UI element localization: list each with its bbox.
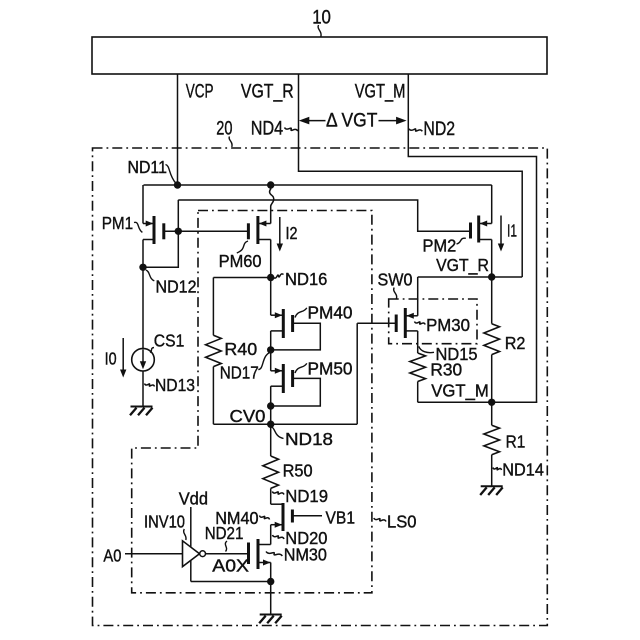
svg-text:ND14: ND14 [502, 460, 544, 480]
svg-text:R30: R30 [430, 360, 462, 380]
svg-text:CV0: CV0 [230, 406, 266, 426]
svg-text:ND17: ND17 [220, 363, 259, 383]
svg-text:LS0: LS0 [387, 512, 417, 532]
svg-text:ND13: ND13 [155, 375, 195, 395]
svg-text:A0: A0 [103, 546, 121, 566]
svg-text:ND21: ND21 [205, 523, 244, 543]
svg-text:Δ VGT: Δ VGT [326, 111, 378, 132]
svg-text:ND12: ND12 [156, 277, 197, 297]
svg-text:PM50: PM50 [308, 358, 353, 378]
svg-text:INV10: INV10 [144, 512, 185, 532]
svg-text:PM40: PM40 [308, 303, 353, 323]
svg-text:VB1: VB1 [326, 508, 356, 528]
svg-text:I2: I2 [286, 223, 298, 243]
svg-text:10: 10 [312, 7, 331, 28]
svg-text:ND4: ND4 [251, 118, 284, 139]
svg-text:SW0: SW0 [378, 270, 413, 290]
svg-text:VCP: VCP [186, 81, 214, 102]
svg-text:I0: I0 [105, 349, 117, 369]
svg-text:ND16: ND16 [285, 269, 328, 289]
svg-text:R50: R50 [283, 461, 313, 481]
svg-text:R1: R1 [506, 432, 526, 452]
svg-text:PM60: PM60 [219, 251, 262, 271]
svg-text:I1: I1 [507, 221, 517, 241]
svg-text:ND2: ND2 [423, 119, 455, 140]
svg-text:VGT_M: VGT_M [431, 381, 489, 402]
svg-text:PM30: PM30 [426, 315, 470, 335]
svg-text:A0X: A0X [212, 555, 249, 575]
svg-text:ND19: ND19 [285, 486, 328, 506]
svg-text:VGT_R: VGT_R [241, 81, 294, 102]
svg-text:ND18: ND18 [285, 429, 333, 449]
svg-text:R40: R40 [224, 339, 257, 359]
svg-text:CS1: CS1 [154, 331, 185, 351]
svg-text:VGT_M: VGT_M [355, 82, 406, 103]
svg-text:PM1: PM1 [102, 213, 134, 233]
svg-text:20: 20 [216, 118, 232, 139]
svg-text:PM2: PM2 [423, 235, 457, 255]
svg-text:R2: R2 [505, 333, 526, 353]
svg-text:ND11: ND11 [128, 157, 167, 177]
svg-text:Vdd: Vdd [179, 489, 208, 509]
svg-text:NM30: NM30 [284, 545, 327, 565]
svg-text:VGT_R: VGT_R [436, 255, 489, 276]
